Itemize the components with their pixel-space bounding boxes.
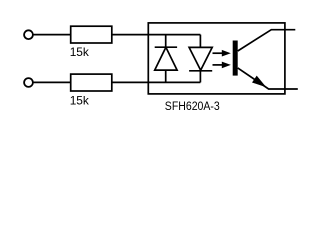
wire left LED bottom lead: [165, 70, 167, 82]
diode D2 cathode bar: [189, 70, 212, 72]
wire R2 to LED cathode rail: [112, 81, 201, 83]
terminal pad top input: [24, 30, 33, 39]
wire right LED top lead: [199, 35, 201, 48]
diode D1 cathode bar: [155, 46, 177, 48]
diode D2 triangle: [189, 47, 212, 70]
light arrow upper shaft: [213, 52, 223, 54]
light arrow lower head: [222, 62, 231, 69]
light arrow lower shaft: [213, 64, 223, 66]
svg-text:SFH620A-3: SFH620A-3: [165, 101, 220, 113]
transistor Q1 emitter wire: [238, 68, 298, 89]
transistor Q1 collector wire: [238, 30, 296, 51]
svg-text:15k: 15k: [70, 93, 89, 107]
resistor R2 body: [71, 74, 112, 91]
wire bottom terminal to R2: [34, 81, 71, 83]
transistor Q1 emitter arrowhead: [252, 76, 266, 88]
wire left LED top lead: [165, 35, 167, 48]
optocoupler U1 package outline: [148, 23, 285, 94]
light arrow upper head: [222, 50, 231, 57]
resistor R1 body: [71, 26, 112, 43]
terminal pad bottom input: [24, 78, 33, 87]
diode D1 triangle: [155, 47, 177, 70]
transistor Q1 base bar: [233, 41, 238, 76]
wire top terminal to R1: [34, 34, 71, 36]
svg-text:15k: 15k: [70, 45, 89, 59]
wire right LED bottom lead: [199, 71, 201, 83]
wire R1 to LED anode rail: [112, 34, 201, 36]
